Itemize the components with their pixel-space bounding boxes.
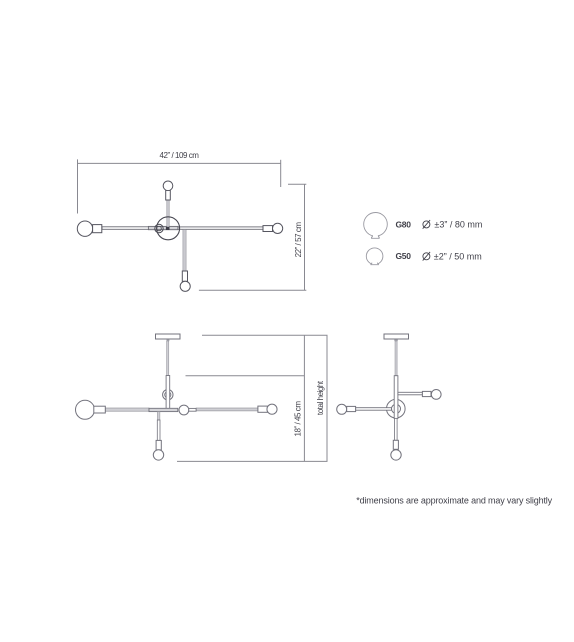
side: canopy nub: [394, 340, 398, 342]
side: ceiling canopy: [384, 334, 409, 339]
side: hanging stem tube: [395, 418, 398, 440]
left extension line of 42" dimension: [77, 159, 79, 213]
front: left bulb socket: [94, 406, 106, 413]
top tick of 22" dimension: [288, 183, 306, 185]
front: middle extension line: [186, 375, 305, 377]
front: dimension line 18"/45cm: [303, 335, 305, 461]
front: swivel ball outer circle: [163, 390, 173, 400]
side: left bulb G50: [337, 404, 347, 414]
plan: center stem cross-section: [166, 227, 170, 230]
dimension label 22" / 57 cm (rotated): [294, 222, 303, 258]
legend: G50 bulb icon: [366, 248, 383, 265]
front: facing bulb G50: [179, 405, 189, 415]
svg-text:G50: G50: [396, 251, 412, 261]
svg-text:42” / 109 cm: 42” / 109 cm: [159, 151, 199, 160]
side: upper right arm tube: [398, 392, 423, 395]
legend: G80 size text: [434, 220, 482, 230]
front: right arm bar: [196, 408, 258, 411]
legend: G50 label: [396, 251, 412, 261]
side: left arm tube: [356, 408, 392, 411]
front: facing bulb socket: [189, 408, 196, 411]
legend: G80 bulb icon: [364, 213, 388, 239]
plan: hanging bulb seen from above (outer): [155, 224, 163, 232]
front: left arm bar: [105, 408, 149, 411]
front: hanging stem tube: [157, 420, 160, 440]
side: hanging bulb G50: [391, 450, 401, 460]
dimension line 42"/109cm horizontal: [78, 162, 281, 164]
front: dimension label total height (rotated): [316, 380, 325, 415]
plan: right bulb socket: [263, 226, 273, 232]
front: right bulb socket: [258, 406, 268, 412]
dimension label 42" / 109 cm: [159, 151, 199, 160]
svg-text:18” / 45 cm: 18” / 45 cm: [293, 401, 302, 437]
plan: left bulb G80: [77, 221, 92, 236]
front: ceiling canopy: [156, 334, 181, 339]
svg-text:22” / 57 cm: 22” / 57 cm: [294, 222, 303, 258]
plan: right arm tube: [178, 227, 263, 229]
plan: down arm stem: [183, 230, 186, 272]
side: lower stem tube: [394, 376, 398, 419]
front: lower stem tube: [166, 376, 170, 410]
front: left bulb G80: [76, 400, 95, 419]
side: upper stem rod: [395, 341, 397, 376]
front: dimension label 18" / 45 cm (rotated): [293, 401, 302, 437]
front: hanging stem upper: [157, 412, 160, 421]
side: hub inner circle: [392, 404, 401, 413]
dimension line 22"/57cm vertical: [304, 184, 306, 290]
svg-text:*dimensions are approximate an: *dimensions are approximate and may vary…: [356, 496, 552, 506]
plan: up bulb G50: [163, 181, 173, 191]
svg-text:±2” / 50 mm: ±2” / 50 mm: [434, 252, 482, 262]
footnote: [356, 496, 552, 506]
front: canopy nub: [167, 340, 170, 342]
plan: up bulb socket: [166, 190, 171, 200]
legend: G80 label: [396, 219, 412, 229]
front: center crossbar: [149, 408, 178, 411]
plan: down bulb G50: [180, 281, 190, 291]
front: dimension line total height: [326, 335, 328, 461]
plan: left bulb socket: [93, 225, 102, 233]
side: left bulb socket: [347, 406, 356, 411]
side: upper right socket: [422, 391, 431, 396]
svg-text:total height: total height: [316, 380, 325, 415]
plan: left arm tube: [102, 227, 149, 230]
side: hub outer circle: [387, 399, 406, 418]
side: hanging bulb socket: [393, 440, 398, 449]
front: right bulb G50: [267, 404, 277, 414]
plan: down bulb socket: [182, 271, 187, 281]
svg-text:±3” / 80 mm: ±3” / 80 mm: [434, 220, 482, 230]
front: top extension line: [202, 334, 328, 336]
plan: canopy hub circle: [157, 217, 180, 240]
right extension line of 42" dimension: [280, 160, 282, 187]
front: hanging bulb socket: [156, 440, 161, 450]
front: upper stem rod: [167, 341, 169, 376]
front: bottom extension line: [177, 460, 328, 462]
front: swivel ball inner circle: [165, 392, 171, 398]
side: upper right bulb G50: [431, 390, 441, 400]
plan: right bulb G50: [273, 223, 283, 233]
bottom extension line of 22" dimension: [199, 289, 306, 291]
plan: up arm stem: [167, 200, 169, 229]
svg-text:G80: G80: [396, 219, 412, 229]
front: hanging bulb G50: [153, 450, 163, 460]
legend: G80 diameter symbol: [423, 220, 430, 229]
plan: center crossbar: [148, 226, 178, 229]
legend: G50 size text: [434, 252, 482, 262]
plan: hanging bulb seen from above (inner): [157, 226, 162, 231]
legend: G50 diameter symbol: [423, 252, 430, 261]
